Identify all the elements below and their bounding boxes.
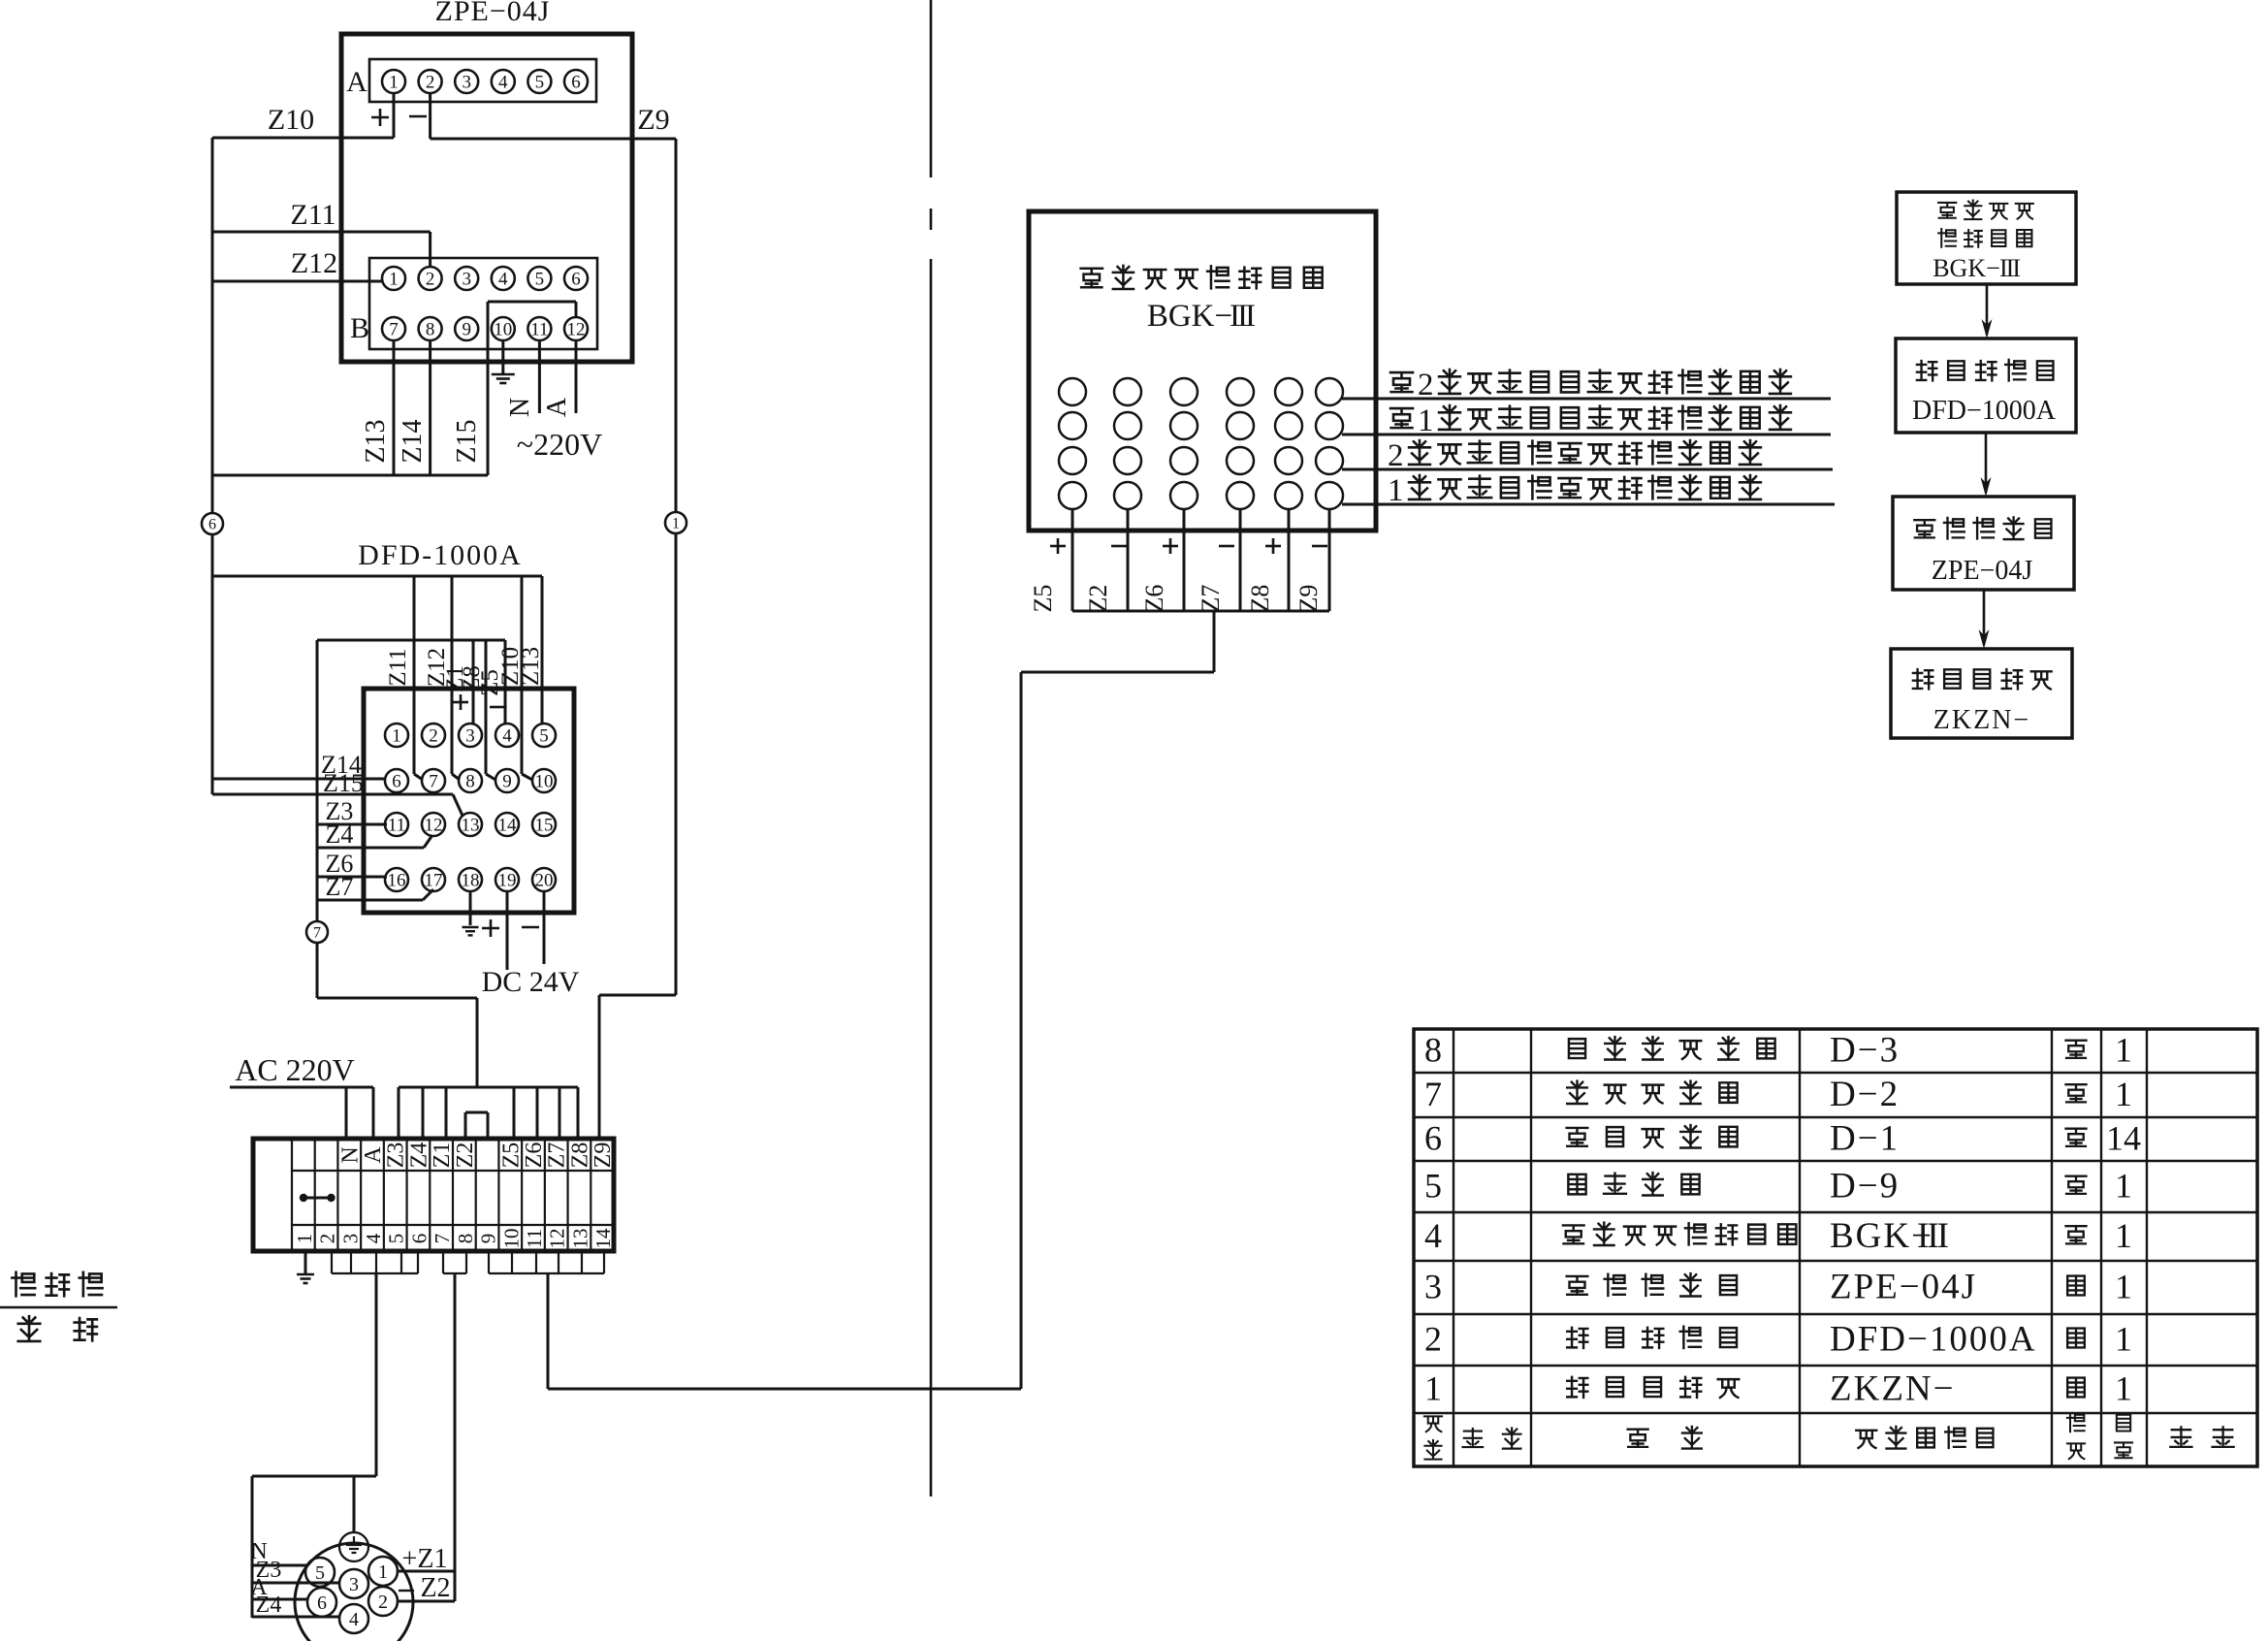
svg-text:8: 8 (1424, 1031, 1442, 1070)
polarity - at DFD 4 (490, 706, 505, 709)
svg-text:DFD-1000A: DFD-1000A (358, 539, 523, 571)
table row line (1414, 1116, 2257, 1118)
label 进2号除氧器蒸汽阀操作端子号 (1390, 372, 1413, 392)
wire Z13 drop to DFD 5 (541, 576, 544, 724)
label 进1号除氧器蒸汽阀操作端子号 (1390, 408, 1413, 428)
svg-text:D−3: D−3 (1830, 1031, 1900, 1071)
svg-text:16: 16 (388, 870, 406, 890)
stub channel below terminals 2-6 (331, 1251, 333, 1273)
BGK terminal r1c1 (1059, 378, 1086, 405)
svg-text:6: 6 (392, 771, 401, 791)
svg-text:11: 11 (523, 1229, 546, 1248)
svg-text:1: 1 (293, 1234, 316, 1244)
svg-text:Z9: Z9 (591, 1142, 616, 1169)
table column line (1799, 1029, 1801, 1466)
svg-text:Z2: Z2 (420, 1573, 450, 1603)
strip divider (452, 1139, 454, 1251)
svg-text:3: 3 (465, 725, 475, 746)
connector ground pin (339, 1532, 368, 1561)
svg-text:Z5: Z5 (477, 669, 503, 696)
terminal B5 (527, 267, 551, 290)
svg-text:Z15: Z15 (452, 419, 482, 463)
svg-text:N: N (337, 1146, 363, 1163)
svg-text:Z13: Z13 (361, 419, 391, 463)
wire N to pin 5 (252, 1564, 307, 1567)
polarity + at A1 (371, 116, 389, 119)
svg-text:Z9: Z9 (637, 104, 669, 136)
svg-text:~220V: ~220V (517, 427, 602, 462)
wire N from B11 (538, 340, 541, 413)
top bus wire of DFD (212, 575, 542, 578)
BGK terminal r4c2 (1114, 482, 1141, 509)
svg-text:1: 1 (392, 725, 401, 746)
polarity + at Z8 (1265, 545, 1281, 548)
svg-text:4: 4 (502, 725, 512, 746)
polarity - at Z9 (1312, 545, 1327, 548)
flow box servo amplifier (1893, 497, 2074, 590)
wire Z8 into strip (577, 1087, 580, 1139)
AC source wire (230, 1086, 373, 1089)
terminal DFD 3 (459, 724, 482, 747)
BGK terminal r4c5 (1275, 482, 1302, 509)
svg-text:1: 1 (1418, 403, 1434, 438)
wire from terminals 7-8 to Z1 Z2 (454, 1273, 457, 1601)
left bus wire upper (211, 138, 214, 513)
terminal DFD 9 (495, 769, 519, 792)
svg-text:7: 7 (313, 924, 321, 941)
svg-text:ZPE−04J: ZPE−04J (1830, 1268, 1977, 1307)
polarity + at Z6 (1163, 545, 1178, 548)
BGK terminal r3c6 (1316, 447, 1343, 474)
svg-text:III: III (1230, 299, 1255, 334)
BGK terminal r1c5 (1275, 378, 1302, 405)
wire A2 to Z9 (429, 93, 431, 139)
wire Z15 to B12 (487, 302, 490, 475)
svg-text:4: 4 (498, 269, 508, 289)
svg-text:15: 15 (535, 815, 554, 835)
table column line (1530, 1029, 1532, 1466)
svg-text:13: 13 (568, 1229, 591, 1249)
table header (1424, 1416, 1442, 1432)
table column line (1453, 1029, 1454, 1466)
svg-text:Z11: Z11 (385, 648, 411, 686)
svg-text:2: 2 (429, 725, 438, 746)
terminal B1 (382, 267, 405, 290)
svg-text:9: 9 (502, 771, 512, 791)
svg-text:6: 6 (407, 1234, 431, 1244)
wire Z4 to DFD 12 (317, 847, 424, 850)
connector body (295, 1543, 413, 1641)
svg-text:6: 6 (208, 516, 216, 532)
svg-text:Z10: Z10 (268, 104, 314, 136)
wire terminal row 2 (1342, 434, 1831, 436)
wire Z12 drop to DFD 8 (451, 576, 454, 774)
svg-text:9: 9 (477, 1234, 500, 1244)
svg-text:10: 10 (535, 771, 554, 791)
connector pin 4 (339, 1604, 368, 1633)
terminal DFD 19 (495, 868, 519, 891)
wire Z7 below BGK (1239, 509, 1242, 611)
wire Z8 below BGK (1288, 509, 1291, 611)
svg-text:DC 24V: DC 24V (482, 966, 580, 998)
wire Z6 to DFD 16 (317, 876, 387, 879)
svg-text:7: 7 (431, 1234, 454, 1244)
svg-text:7: 7 (389, 319, 399, 339)
BGK terminal r2c1 (1059, 412, 1086, 439)
terminal strip B box (369, 258, 597, 349)
wire Z5 below BGK (1071, 509, 1074, 611)
terminal B6 (564, 267, 588, 290)
wire +Z1 from pin 1 (399, 1570, 455, 1573)
svg-text:14: 14 (591, 1228, 615, 1249)
svg-text:12: 12 (425, 815, 443, 835)
svg-text:6: 6 (1424, 1119, 1442, 1158)
svg-text:Z14: Z14 (398, 419, 428, 463)
wire Z10 drop to DFD 10 (521, 576, 524, 774)
terminal DFD 5 (532, 724, 556, 747)
terminal DFD 2 (422, 724, 445, 747)
cable number 6 (202, 513, 223, 534)
label -Z2 (399, 1590, 414, 1592)
svg-text:Z5: Z5 (1029, 585, 1057, 613)
strip divider (544, 1139, 546, 1251)
polarity + at DFD 3 (453, 701, 468, 704)
terminal B4 (492, 267, 515, 290)
harness wire below cable 7 (316, 943, 319, 998)
svg-text:ZKZN−: ZKZN− (1830, 1369, 1956, 1409)
connector pin 3 (339, 1569, 368, 1598)
svg-text:1: 1 (2115, 1031, 2132, 1070)
terminal DFD 14 (495, 813, 519, 836)
svg-text:N: N (505, 398, 535, 417)
svg-text:1: 1 (1388, 473, 1404, 508)
svg-text:1: 1 (378, 1561, 388, 1583)
svg-text:A: A (542, 397, 572, 417)
svg-text:20: 20 (535, 870, 554, 890)
svg-text:8: 8 (426, 319, 435, 339)
svg-text:2: 2 (1388, 438, 1404, 473)
terminal strip box (253, 1139, 614, 1251)
wire Z9 (431, 138, 676, 141)
connector left rail wire (251, 1476, 254, 1618)
svg-text:8: 8 (454, 1234, 477, 1244)
polarity + at Z5 (1050, 545, 1066, 548)
BGK terminal r3c2 (1114, 447, 1141, 474)
BGK terminal r4c1 (1059, 482, 1086, 509)
terminal A2 (419, 70, 442, 93)
svg-text:10: 10 (494, 319, 512, 339)
stub channel below terminals 7-8 (442, 1251, 444, 1273)
table row line (1414, 1260, 2257, 1262)
flow arrow 2 (1985, 433, 1988, 493)
wire Z7 into strip (559, 1087, 561, 1139)
table row line (1414, 1412, 2257, 1414)
wire Z4 to pin 4 (252, 1616, 339, 1619)
wire terminal row 3 (1342, 468, 1833, 471)
svg-text:1: 1 (2115, 1075, 2132, 1113)
svg-text:17: 17 (425, 870, 443, 890)
label 锅炉微机控制装置 (1081, 269, 1102, 287)
connector pin 5 (305, 1558, 335, 1587)
wire Z14 from B8 (429, 340, 431, 475)
svg-text:AC 220V: AC 220V (235, 1052, 355, 1087)
flow arrow 1 (1986, 284, 1989, 335)
BGK terminal r1c6 (1316, 378, 1343, 405)
svg-text:13: 13 (462, 815, 480, 835)
svg-text:1: 1 (1424, 1369, 1442, 1408)
svg-text:Z6: Z6 (522, 1142, 547, 1169)
terminal DFD 1 (385, 724, 408, 747)
strip divider left (291, 1139, 293, 1251)
wire Z4 into strip (422, 1087, 425, 1139)
table row line (1414, 1365, 2257, 1367)
svg-text:14: 14 (2106, 1119, 2141, 1158)
svg-text:7: 7 (429, 771, 438, 791)
right bus wire lower (675, 533, 678, 995)
jumper link terminals 1-2 (300, 1194, 307, 1202)
wire Z14 to DFD 6 (212, 778, 385, 781)
svg-text:7: 7 (1424, 1075, 1442, 1113)
table row line (1414, 1072, 2257, 1074)
wire Z11 drop to DFD 7 (413, 576, 416, 774)
terminal B9 (455, 317, 478, 340)
polarity - at A2 (409, 115, 427, 118)
strip divider (429, 1139, 431, 1251)
strip divider (566, 1139, 568, 1251)
BGK terminal r2c3 (1170, 412, 1198, 439)
svg-text:Z2: Z2 (453, 1142, 478, 1169)
wire terminal row 1 (1342, 398, 1831, 401)
strip divider (590, 1139, 591, 1251)
wire DC minus from DFD 20 (543, 891, 546, 964)
table column line (2051, 1029, 2053, 1466)
polarity - at DFD 20 (522, 926, 539, 929)
svg-text:ZPE−04J: ZPE−04J (435, 0, 551, 27)
svg-text:Z8: Z8 (567, 1142, 592, 1169)
svg-text:DFD−1000A: DFD−1000A (1830, 1320, 2037, 1360)
svg-text:5: 5 (535, 269, 545, 289)
terminal B8 (419, 317, 442, 340)
label panel 仪表盘 (12, 1272, 35, 1296)
polarity + at DFD 19 (482, 927, 499, 930)
svg-text:2: 2 (316, 1234, 339, 1244)
svg-text:ZPE−04J: ZPE−04J (1932, 556, 2033, 586)
svg-text:10: 10 (499, 1229, 523, 1249)
svg-text:+Z1: +Z1 (402, 1544, 448, 1574)
bill of materials table (1414, 1029, 2257, 1466)
svg-text:Z12: Z12 (291, 247, 337, 279)
bus wire to Z13 Z14 Z15 (212, 474, 488, 477)
terminal B7 (382, 317, 405, 340)
svg-text:1: 1 (2115, 1268, 2132, 1306)
stub channel below terminals 9-14 (488, 1251, 490, 1273)
svg-text:A: A (346, 66, 367, 98)
flow arrow 3 (1983, 590, 1986, 645)
harness top wire (317, 639, 505, 642)
svg-text:BGK−: BGK− (1933, 254, 2000, 282)
svg-text:1: 1 (2115, 1167, 2132, 1206)
BGK terminal r2c2 (1114, 412, 1141, 439)
wire Z3 into strip (398, 1087, 400, 1139)
terminal DFD 4 (495, 724, 519, 747)
wire Z7 to DFD 17 (317, 899, 423, 902)
connector pin 1 (368, 1557, 398, 1586)
svg-text:Z5: Z5 (498, 1142, 524, 1169)
DFD terminal box (364, 689, 574, 913)
svg-text:A: A (361, 1146, 386, 1164)
wire Z13 from B7 (393, 340, 396, 475)
terminal DFD 15 (532, 813, 556, 836)
wire Z11 (212, 231, 431, 234)
polarity - at Z7 (1219, 545, 1234, 548)
right bus corner wire (599, 994, 676, 997)
BGK terminal r4c6 (1316, 482, 1343, 509)
terminal DFD 18 (459, 868, 482, 891)
panel-field separator line (930, 0, 933, 177)
wire Z1 into strip (445, 1087, 448, 1139)
wire Z1 drop to DFD 3 (472, 640, 475, 724)
svg-text:Z13: Z13 (518, 647, 544, 686)
svg-text:18: 18 (462, 870, 480, 890)
strip divider (475, 1139, 477, 1251)
cable number 7 (306, 921, 328, 943)
ground at DFD 18 (469, 891, 472, 925)
svg-text:B: B (350, 312, 369, 344)
svg-text:6: 6 (571, 269, 581, 289)
svg-text:Z1: Z1 (430, 1142, 455, 1169)
svg-text:2: 2 (426, 72, 435, 92)
polarity - at Z2 (1111, 545, 1127, 548)
wire DC plus from DFD 19 (506, 891, 509, 970)
label field 现场 (18, 1316, 41, 1341)
svg-text:Z3: Z3 (384, 1142, 409, 1169)
terminal DFD 17 (422, 868, 445, 891)
terminal DFD 12 (422, 813, 445, 836)
strip divider (336, 1139, 338, 1251)
ground at B10 (501, 340, 504, 373)
svg-text:3: 3 (462, 72, 471, 92)
harness wire from cable 7 (316, 640, 319, 921)
svg-text:Z11: Z11 (290, 199, 335, 231)
strip divider (497, 1139, 499, 1251)
terminal B2 (419, 267, 442, 290)
svg-text:12: 12 (567, 319, 586, 339)
flow box electric operator (1896, 338, 2076, 433)
svg-text:5: 5 (315, 1562, 325, 1584)
strip row divider lower (292, 1224, 614, 1226)
wire Z6 into strip (536, 1087, 539, 1139)
left bus wire lower (211, 534, 214, 794)
svg-text:14: 14 (498, 815, 518, 835)
separator label line (0, 1306, 117, 1308)
svg-text:III: III (1999, 254, 2020, 282)
wire -Z2 from pin 2 (399, 1600, 455, 1603)
wire Z9 below BGK (1328, 509, 1331, 611)
terminal A3 (455, 70, 478, 93)
wire Z5 drop to DFD 4 (504, 640, 507, 724)
svg-text:Z15: Z15 (323, 769, 364, 797)
svg-text:19: 19 (498, 870, 517, 890)
svg-text:2: 2 (1418, 368, 1434, 402)
flow box electric control valve (1891, 649, 2072, 738)
BGK terminal r1c2 (1114, 378, 1141, 405)
wire A-phase from B12 (575, 340, 578, 413)
table row line (1414, 1211, 2257, 1213)
wire from terminal 4 to connector (375, 1273, 378, 1476)
wire N to strip (345, 1087, 348, 1139)
svg-text:DFD−1000A: DFD−1000A (1912, 396, 2057, 426)
svg-text:Z7: Z7 (326, 873, 354, 901)
svg-text:2: 2 (426, 269, 435, 289)
svg-text:Z4: Z4 (326, 820, 354, 849)
terminal DFD 20 (532, 868, 556, 891)
servo amplifier ZPE-04J box (341, 34, 632, 362)
BGK terminal r2c5 (1275, 412, 1302, 439)
harness channel top wire (399, 1086, 578, 1089)
wire A1 to Z10 (393, 93, 396, 138)
BGK terminal r3c1 (1059, 447, 1086, 474)
strip divider (383, 1139, 385, 1251)
terminal B3 (455, 267, 478, 290)
wire Z3 to DFD 11 (317, 823, 387, 826)
table column line (2100, 1029, 2102, 1466)
BGK terminal r1c3 (1170, 378, 1198, 405)
BGK terminal r2c6 (1316, 412, 1343, 439)
wire A to pin 6 (252, 1598, 308, 1601)
svg-text:5: 5 (385, 1234, 408, 1244)
svg-text:1: 1 (389, 72, 399, 92)
strip divider (521, 1139, 523, 1251)
terminal DFD 16 (385, 868, 408, 891)
svg-text:Z4: Z4 (256, 1593, 282, 1618)
terminal A1 (382, 70, 405, 93)
svg-text:11: 11 (530, 319, 548, 339)
terminal A5 (527, 70, 551, 93)
BGK terminal r3c4 (1227, 447, 1254, 474)
svg-text:BGK−: BGK− (1147, 299, 1232, 334)
svg-text:6: 6 (317, 1593, 327, 1614)
terminal DFD 13 (459, 813, 482, 836)
BGK terminal r1c4 (1227, 378, 1254, 405)
ground wire below strip (304, 1251, 307, 1273)
terminal B11 (527, 317, 551, 340)
wire connecting BGK terminals (1072, 610, 1329, 613)
svg-text:Z8: Z8 (1246, 585, 1274, 613)
strip divider (314, 1139, 316, 1251)
svg-text:12: 12 (546, 1229, 569, 1249)
svg-text:ZKZN−: ZKZN− (1933, 705, 2030, 735)
svg-text:D−9: D−9 (1830, 1167, 1900, 1207)
junction wire above connector (252, 1475, 376, 1478)
terminal DFD 6 (385, 769, 408, 792)
terminal DFD 7 (422, 769, 445, 792)
svg-text:1: 1 (2115, 1216, 2132, 1255)
cable number 1 (665, 512, 687, 533)
connector pin 2 (368, 1587, 398, 1616)
svg-text:4: 4 (1424, 1216, 1442, 1255)
svg-text:Z7: Z7 (545, 1142, 570, 1169)
wire terminal row 4 (1342, 503, 1835, 506)
strip divider (360, 1139, 362, 1251)
wire to connector ground pin (353, 1476, 356, 1531)
boiler computer control device BGK-III box (1029, 211, 1376, 531)
terminal DFD 8 (459, 769, 482, 792)
wire Z5 into strip (513, 1087, 516, 1139)
svg-text:D−2: D−2 (1830, 1075, 1900, 1114)
svg-text:2: 2 (1424, 1320, 1442, 1359)
wire from terminal 12 to BGK (547, 1273, 550, 1389)
svg-text:5: 5 (1424, 1167, 1442, 1206)
